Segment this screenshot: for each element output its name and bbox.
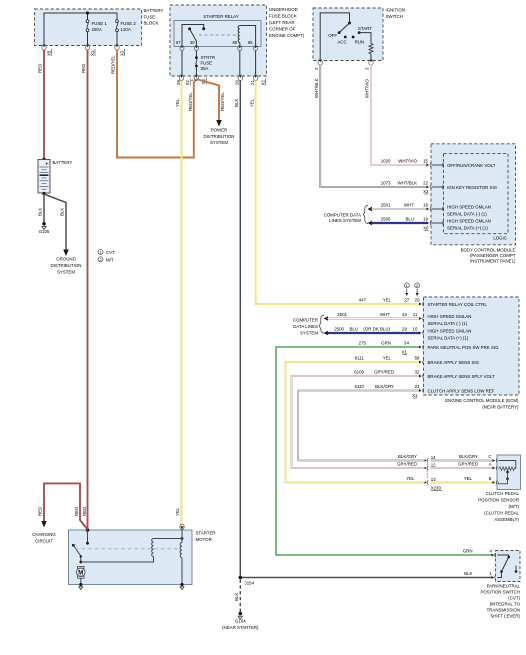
svg-text:SERIAL DATA (+) (1): SERIAL DATA (+) (1)	[428, 336, 469, 341]
wire YEL 447 labels at ECM row 1	[359, 298, 420, 303]
svg-text:10: 10	[413, 327, 418, 332]
arrow to charging circuit	[32, 521, 56, 544]
svg-text:20: 20	[235, 80, 240, 85]
svg-text:250A: 250A	[92, 27, 102, 32]
wire WHT 2501 to ECM pins 43/11	[328, 312, 420, 319]
terminal X2 of battery fuse block	[115, 44, 125, 56]
svg-text:RED: RED	[38, 64, 43, 73]
relay mechanical linkage dashed	[199, 34, 237, 36]
svg-text:DISTRIBUTION: DISTRIBUTION	[51, 263, 82, 268]
svg-text:13: 13	[431, 477, 436, 482]
svg-text:YEL: YEL	[383, 356, 392, 361]
svg-text:2501: 2501	[337, 312, 347, 317]
svg-text:*: *	[191, 79, 193, 84]
svg-text:START: START	[358, 26, 372, 31]
svg-text:(OR DK BLU): (OR DK BLU)	[363, 327, 390, 332]
ignition resistor to terminal 3	[359, 33, 373, 61]
svg-text:HIGH SPEED GMLAN: HIGH SPEED GMLAN	[428, 314, 472, 319]
relay terminal pin 85	[254, 46, 258, 51]
svg-text:BLK: BLK	[60, 208, 65, 216]
svg-text:BLK: BLK	[234, 593, 239, 601]
svg-text:FUSE: FUSE	[144, 14, 156, 19]
svg-text:87: 87	[176, 40, 181, 45]
svg-text:X2: X2	[120, 50, 125, 56]
starter motor M	[77, 566, 86, 584]
svg-text:A: A	[489, 462, 492, 467]
svg-text:ASSEMBLY): ASSEMBLY)	[494, 517, 519, 522]
svg-text:GRY/RED: GRY/RED	[397, 462, 417, 467]
svg-text:UNDERHOOD: UNDERHOOD	[269, 7, 298, 12]
park neutral position switch box	[480, 551, 520, 619]
svg-text:IGNITION: IGNITION	[386, 8, 406, 13]
starter relay coil pins 86 85	[233, 26, 256, 47]
park neutral switch internals	[498, 555, 518, 578]
clutch pedal position sensor box	[478, 455, 520, 522]
inline connector X230 pin 14	[425, 455, 437, 463]
wire GRY/RED 6109 from ECM pin 32 to clutch pedal sensor A	[292, 370, 493, 469]
svg-text:ENGINE COMPT): ENGINE COMPT)	[269, 33, 305, 38]
svg-text:X2: X2	[423, 189, 429, 194]
wire pin85 to terminal 21	[255, 51, 257, 77]
svg-text:3: 3	[365, 67, 370, 70]
wire BLU 2500 to BCM pin 19	[372, 217, 430, 231]
svg-text:BRAKE APPLY SENS SIG: BRAKE APPLY SENS SIG	[428, 360, 480, 365]
terminal X1 of battery fuse block	[85, 44, 95, 56]
svg-text:RED: RED	[38, 507, 43, 516]
svg-text:PARK/NEUTRAL: PARK/NEUTRAL	[487, 583, 521, 588]
wire bus inside battery fuse block	[44, 13, 117, 46]
svg-text:BLK/GRY: BLK/GRY	[375, 384, 394, 389]
BCM pin 19 connector cup and row HIGH SPEED GMLAN (+)	[427, 219, 491, 231]
svg-text:FUSE 2: FUSE 2	[121, 21, 137, 26]
svg-text:BODY CONTROL MODULE: BODY CONTROL MODULE	[461, 248, 516, 253]
svg-text:X1: X1	[90, 50, 95, 56]
svg-text:YEL: YEL	[406, 476, 415, 481]
svg-text:SERIAL DATA (-) (1): SERIAL DATA (-) (1)	[428, 321, 468, 326]
svg-text:29: 29	[415, 298, 420, 303]
inline connector X230 pin 13	[425, 477, 442, 491]
clutch sensor pin C cup	[493, 459, 498, 463]
svg-text:6109: 6109	[354, 370, 364, 375]
svg-text:STARTER RELAY COIL CTRL: STARTER RELAY COIL CTRL	[428, 302, 488, 307]
svg-text:34: 34	[404, 341, 409, 346]
wire WHT/BLK ignition 2 to BCM pin 22	[314, 65, 429, 195]
svg-text:SERIAL DATA (+) (1): SERIAL DATA (+) (1)	[447, 226, 488, 231]
wire RED/YEL from X2 down, right, up to underhood fuse block	[111, 50, 197, 158]
svg-text:(PASSENGER COMPT: (PASSENGER COMPT	[470, 253, 516, 258]
svg-text:X2: X2	[260, 80, 265, 86]
svg-text:C: C	[488, 454, 491, 459]
svg-text:WHT/BLK: WHT/BLK	[314, 78, 319, 98]
svg-text:CORNER OF: CORNER OF	[269, 27, 296, 32]
svg-text:STRTR: STRTR	[201, 55, 216, 60]
wire YEL 8111 from ECM pin 58 to clutch pedal sensor B	[286, 356, 493, 483]
svg-text:CLUTCH PEDAL: CLUTCH PEDAL	[486, 491, 520, 496]
svg-text:(M/T): (M/T)	[509, 504, 520, 509]
clutch sensor internal potentiometer	[499, 461, 516, 484]
battery fuse block	[35, 8, 164, 46]
terminal 21 X2 of underhood fuse block	[250, 75, 266, 86]
svg-text:32: 32	[415, 370, 420, 375]
node junction on bus	[86, 11, 89, 14]
relay terminal pin 87	[180, 46, 184, 51]
system arrow BLU (ECM row 3)	[324, 331, 329, 335]
system arrow BLU (BCM row 4)	[368, 221, 373, 225]
svg-text:TRANSMISSION: TRANSMISSION	[487, 607, 520, 612]
svg-text:12: 12	[431, 462, 436, 467]
BCM pin 18 connector cup and row HIGH SPEED GMLAN (-)	[427, 205, 491, 217]
svg-text:15: 15	[423, 159, 428, 164]
svg-text:21: 21	[250, 80, 255, 85]
svg-text:SERIAL DATA (-) (1): SERIAL DATA (-) (1)	[447, 212, 487, 217]
svg-text:B: B	[489, 476, 492, 481]
svg-text:(LEFT REAR: (LEFT REAR	[269, 20, 295, 25]
svg-text:14: 14	[431, 455, 436, 460]
svg-text:30: 30	[190, 40, 195, 45]
svg-text:28: 28	[176, 80, 181, 85]
svg-text:6110: 6110	[355, 384, 365, 389]
svg-text:X8: X8	[423, 225, 429, 230]
ECM pin 23 connector cup and row CLUTCH APPLY SENS LOW REF	[419, 389, 495, 394]
starter solenoid contact from battery feed	[86, 530, 89, 545]
svg-text:OFF/RUN/CRANK VOLT: OFF/RUN/CRANK VOLT	[447, 163, 496, 168]
starter motor case ground right	[180, 583, 184, 590]
svg-text:(NEAR BATTERY): (NEAR BATTERY)	[482, 405, 519, 410]
relay terminal pin 86	[238, 46, 242, 51]
wire pin86 to terminal 20	[239, 51, 241, 77]
clutch sensor pin A cup	[493, 466, 498, 470]
system arrow WHT (BCM row 3)	[368, 207, 373, 211]
ignition switch internal wiring	[320, 13, 351, 61]
terminal S of starter motor	[180, 524, 184, 538]
inline connector X230 pin 12	[425, 462, 437, 470]
BCM pin 15 connector cup and row OFF/RUN/CRANK VOLT	[427, 163, 496, 168]
wire YEL terminal 21 to ECM starter relay coil ctrl	[249, 81, 419, 305]
starter relay box	[174, 14, 261, 47]
svg-text:1073: 1073	[381, 181, 391, 186]
svg-text:GRY/RED: GRY/RED	[458, 462, 478, 467]
svg-text:(CVT): (CVT)	[508, 595, 520, 600]
svg-text:BLK: BLK	[38, 208, 43, 216]
starter motor case ground left	[79, 583, 83, 590]
svg-text:WHT/VIO: WHT/VIO	[365, 79, 370, 98]
ECM pin 43/11 connector cup and row HIGH SPEED GMLAN (-)	[419, 314, 471, 326]
wire BLK/GRY 6110 from ECM pin 23 to clutch pedal sensor C	[298, 384, 493, 461]
svg-text:1: 1	[490, 571, 493, 576]
terminal 28 X2 of underhood fuse block	[176, 75, 194, 86]
svg-text:GRN: GRN	[381, 341, 391, 346]
inline connector X230 dashed link	[426, 464, 428, 480]
svg-text:22: 22	[423, 181, 428, 186]
svg-text:POWER: POWER	[211, 128, 228, 133]
ignition contact ACC	[337, 36, 346, 45]
wire RED from X5 to battery	[38, 50, 44, 160]
svg-text:23: 23	[415, 384, 420, 389]
svg-text:BLOCK: BLOCK	[144, 21, 159, 26]
ignition contact RUN	[352, 36, 364, 45]
svg-text:DISTRIBUTION: DISTRIBUTION	[204, 134, 235, 139]
ECM pin 34 connector cup and row PARK NEUTRAL POS SW PRK SIG	[419, 345, 499, 350]
svg-text:(INTEGRAL TO: (INTEGRAL TO	[490, 601, 521, 606]
svg-text:2501: 2501	[381, 203, 391, 208]
svg-text:HIGH SPEED GMLAN: HIGH SPEED GMLAN	[447, 219, 491, 224]
starter motor box	[69, 530, 216, 585]
park neutral switch pin 4 cup	[492, 553, 496, 557]
wire BLK battery to ground G105	[38, 194, 44, 223]
svg-text:YEL: YEL	[175, 507, 180, 516]
svg-text:RED: RED	[81, 64, 86, 73]
svg-text:SYSTEM: SYSTEM	[210, 140, 228, 145]
node coil top junction	[181, 537, 184, 540]
wire RED charging circuit branch	[38, 483, 88, 529]
svg-text:WHT/BLK: WHT/BLK	[397, 181, 417, 186]
svg-text:ACC: ACC	[337, 40, 346, 45]
svg-text:WHT/VIO: WHT/VIO	[398, 159, 417, 164]
ECM pin 27/29 connector cup and row STARTER RELAY COIL CTRL	[419, 302, 487, 307]
ECM pin 58 connector cup and row BRAKE APPLY SENS SIG	[419, 360, 480, 365]
starter hold-in winding coil	[180, 539, 182, 585]
svg-text:18: 18	[423, 203, 428, 208]
svg-text:X1: X1	[402, 349, 408, 354]
ground G104	[222, 612, 259, 630]
computer data lines system label with brace (BCM)	[324, 206, 368, 224]
svg-text:8111: 8111	[355, 356, 365, 361]
svg-text:275: 275	[359, 341, 367, 346]
svg-text:(NEAR STARTER): (NEAR STARTER)	[222, 625, 259, 630]
svg-text:GROUND: GROUND	[56, 257, 76, 262]
fuse F2 120A	[116, 20, 137, 32]
svg-text:30A: 30A	[201, 66, 209, 71]
svg-text:2500: 2500	[334, 327, 344, 332]
wire RED/YEL branch to power distribution	[196, 79, 225, 121]
BCM pin 22 connector cup and row IGN KEY RESISTOR SIG	[427, 185, 498, 190]
wire RED from X1 to starter motor	[81, 50, 87, 531]
svg-text:YEL: YEL	[175, 98, 180, 107]
svg-text:DATA LINES: DATA LINES	[293, 324, 318, 329]
clutch sensor pin B cup	[493, 481, 498, 485]
starter solenoid switch arm	[72, 544, 82, 562]
ECM pin 29/10 connector cup and row HIGH SPEED GMLAN (+)	[419, 329, 471, 341]
svg-text:4: 4	[490, 549, 493, 554]
svg-text:1020: 1020	[381, 159, 391, 164]
svg-text:X230: X230	[431, 486, 442, 491]
svg-text:HIGH SPEED GMLAN: HIGH SPEED GMLAN	[428, 329, 472, 334]
svg-text:RED/YEL: RED/YEL	[220, 92, 225, 111]
svg-text:120A: 120A	[121, 27, 131, 32]
svg-text:SWITCH: SWITCH	[386, 14, 403, 19]
svg-text:POSITION SWITCH: POSITION SWITCH	[480, 589, 520, 594]
wire WHT/VIO ignition 3 to BCM pin 15	[365, 65, 429, 166]
svg-text:J154: J154	[245, 581, 255, 586]
svg-text:43: 43	[402, 312, 407, 317]
svg-text:11: 11	[413, 312, 418, 317]
svg-text:447: 447	[359, 298, 367, 303]
node RED entry at starter motor	[86, 528, 90, 532]
ground G105	[39, 222, 50, 234]
svg-text:RED/YEL: RED/YEL	[111, 55, 116, 74]
svg-text:X5: X5	[47, 50, 52, 56]
legend CVT MT	[98, 249, 115, 262]
arrow to power distribution system	[204, 120, 235, 145]
starter relay switch arm pin 30	[188, 27, 196, 46]
underhood fuse block	[170, 5, 305, 76]
svg-text:BLK/GRY: BLK/GRY	[459, 454, 478, 459]
svg-text:IGN KEY RESISTOR SIG: IGN KEY RESISTOR SIG	[447, 185, 498, 190]
svg-text:ENGINE CONTROL MODULE (ECM): ENGINE CONTROL MODULE (ECM)	[445, 398, 519, 403]
wire BLK dashed J154 to ground G104	[234, 580, 240, 613]
svg-text:RED: RED	[74, 507, 79, 516]
svg-text:FUSE BLOCK: FUSE BLOCK	[269, 14, 297, 19]
svg-text:2500: 2500	[381, 217, 391, 222]
svg-text:M/T: M/T	[106, 258, 114, 263]
svg-text:SYSTEM: SYSTEM	[57, 270, 75, 275]
svg-text:19: 19	[423, 217, 428, 222]
circled 1 CVT marker above ECM pin 27	[404, 283, 409, 296]
svg-text:YEL: YEL	[249, 98, 254, 107]
svg-text:WHT: WHT	[380, 312, 390, 317]
svg-text:GRN: GRN	[463, 549, 473, 554]
svg-text:2: 2	[314, 67, 319, 70]
svg-text:+: +	[45, 161, 48, 167]
svg-text:COMPUTER: COMPUTER	[293, 318, 318, 323]
svg-text:FUSE 1: FUSE 1	[92, 21, 108, 26]
wire pin87 to terminal 28	[181, 51, 183, 77]
system arrow WHT (ECM row 2)	[324, 316, 329, 320]
wire BLK J154 to park neutral switch pin 1	[240, 571, 492, 578]
terminal X4 of underhood fuse block	[194, 75, 206, 85]
svg-text:BLK: BLK	[234, 99, 239, 107]
svg-text:BRAKE APPLY SENS SPLY VOLT: BRAKE APPLY SENS SPLY VOLT	[428, 374, 496, 379]
terminal 3 of ignition switch	[365, 59, 373, 70]
svg-text:YEL: YEL	[464, 476, 473, 481]
svg-text:BLU: BLU	[405, 217, 414, 222]
computer data lines system label with brace (ECM)	[293, 315, 324, 336]
svg-text:BATTERY: BATTERY	[53, 160, 73, 165]
svg-text:RED: RED	[82, 507, 87, 516]
svg-text:G104: G104	[235, 619, 246, 624]
svg-text:RUN: RUN	[355, 40, 365, 45]
svg-text:MOTOR: MOTOR	[196, 537, 212, 542]
svg-text:RED/YEL: RED/YEL	[188, 92, 193, 111]
starter pull-in winding coil	[152, 539, 182, 557]
svg-text:BLU: BLU	[349, 327, 358, 332]
arrow to ground distribution system	[51, 250, 82, 275]
svg-text:BLK: BLK	[464, 571, 472, 576]
svg-text:SHIFT LEVER): SHIFT LEVER)	[490, 613, 520, 618]
svg-text:COMPUTER DATA: COMPUTER DATA	[324, 213, 361, 218]
ignition contact OFF	[328, 31, 340, 38]
starter relay contact from pin 87	[176, 25, 205, 47]
fuse F1 250A	[86, 20, 107, 32]
svg-text:STARTER: STARTER	[196, 531, 216, 536]
svg-text:85: 85	[248, 40, 253, 45]
wire BLU 2500 to ECM pins 29/10	[328, 327, 420, 334]
svg-text:27: 27	[404, 298, 409, 303]
svg-text:FUSE: FUSE	[201, 61, 213, 66]
wire BLK battery to ground distribution	[44, 194, 66, 250]
svg-text:POSITION SENSOR: POSITION SENSOR	[478, 498, 519, 503]
terminal 2 of ignition switch	[314, 59, 323, 70]
wire GRN 275 from ECM pin 34 to park neutral switch	[276, 341, 493, 556]
ignition contact START	[358, 26, 373, 34]
svg-text:LOGIC: LOGIC	[493, 236, 507, 241]
STRTR fuse 30A	[195, 51, 215, 77]
svg-text:CHARGING: CHARGING	[32, 532, 56, 537]
svg-text:BLK/GRY: BLK/GRY	[398, 454, 417, 459]
body control module BCM box	[431, 144, 516, 264]
svg-text:OFF: OFF	[328, 33, 337, 38]
svg-text:X2: X2	[185, 80, 190, 86]
svg-text:YEL: YEL	[383, 298, 392, 303]
svg-text:(CLUTCH PEDAL: (CLUTCH PEDAL	[484, 511, 519, 516]
node J154	[239, 576, 255, 586]
wire WHT 2501 to BCM pin 18	[372, 203, 429, 210]
svg-text:GRY/RED: GRY/RED	[374, 370, 394, 375]
svg-text:INSTRUMENT PANEL): INSTRUMENT PANEL)	[470, 259, 516, 264]
ECM pin 32 connector cup and row BRAKE APPLY SENS SPLY VOLT	[419, 374, 495, 379]
svg-text:LINES SYSTEM: LINES SYSTEM	[329, 218, 361, 223]
svg-text:PARK NEUTRAL POS SW PRK SIG: PARK NEUTRAL POS SW PRK SIG	[428, 345, 500, 350]
svg-text:CLUTCH APPLY SENS LOW REF: CLUTCH APPLY SENS LOW REF	[428, 389, 495, 394]
engine control module ECM box	[424, 297, 520, 410]
wire solenoid junction to pull-in winding	[81, 557, 154, 563]
park neutral switch pin 1 cup	[492, 576, 496, 580]
svg-text:WHT: WHT	[404, 203, 414, 208]
starter mechanical linkage dashed	[75, 548, 178, 550]
svg-text:CIRCUIT: CIRCUIT	[35, 539, 53, 544]
svg-text:STARTER RELAY: STARTER RELAY	[203, 14, 238, 19]
node switch to motor junction	[79, 561, 82, 564]
terminal X5 of battery fuse block	[42, 44, 52, 56]
svg-text:SYSTEM: SYSTEM	[300, 331, 318, 336]
svg-text:X1: X1	[412, 393, 418, 398]
svg-text:HIGH SPEED GMLAN: HIGH SPEED GMLAN	[447, 205, 491, 210]
svg-text:29: 29	[402, 327, 407, 332]
svg-text:58: 58	[415, 356, 420, 361]
svg-text:BATTERY: BATTERY	[144, 8, 164, 13]
wire BLK terminal 20 to J154 junction	[234, 81, 240, 578]
battery	[38, 158, 72, 196]
svg-text:G105: G105	[39, 229, 50, 234]
terminal 20 of underhood fuse block	[235, 75, 243, 85]
svg-text:CVT: CVT	[106, 250, 115, 255]
wire YEL terminal 28 to starter motor S terminal	[175, 81, 181, 527]
relay terminal pin 30	[194, 46, 198, 51]
svg-text:86: 86	[233, 40, 238, 45]
ignition switch box	[313, 8, 405, 61]
circled 2 MT marker above ECM pin 29	[415, 283, 420, 296]
